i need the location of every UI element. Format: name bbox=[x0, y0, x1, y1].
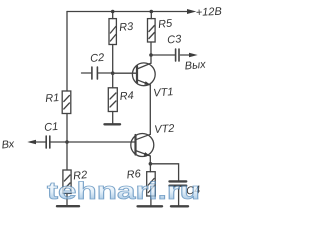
resistor R1 bbox=[62, 91, 71, 114]
svg-text:Вых: Вых bbox=[184, 59, 206, 73]
wire: VT1 base wire bbox=[113, 72, 137, 74]
svg-text:R4: R4 bbox=[119, 90, 134, 103]
junction: rail/R5 bbox=[150, 10, 154, 14]
transistor VT2 bbox=[131, 134, 154, 157]
wire: left rail from +12V to R1 bbox=[66, 12, 68, 92]
wire: node to C4 bbox=[150, 164, 178, 180]
svg-text:R1: R1 bbox=[45, 92, 60, 105]
wire: VT1 emitter to VT2 collector bbox=[149, 85, 151, 134]
wire: R3 bottom to VT1 base node bbox=[112, 45, 114, 74]
wire: +12V supply rail bbox=[67, 11, 188, 13]
wire: VT2 base wire bbox=[67, 141, 135, 143]
ground under C4 bbox=[171, 205, 188, 207]
resistor R5 bbox=[148, 12, 156, 43]
wire: VT2 emitter to R6/C4 node bbox=[149, 156, 151, 164]
wire: C4 to ground bbox=[178, 187, 180, 205]
resistor R3 bbox=[109, 12, 116, 45]
ground under R6 bbox=[138, 205, 162, 207]
capacitor C4 bbox=[170, 181, 187, 185]
resistor R6 bbox=[147, 164, 156, 196]
svg-text:C3: C3 bbox=[167, 33, 183, 46]
capacitor C3 bbox=[151, 49, 190, 61]
wire: R4 to ground bbox=[112, 112, 114, 124]
capacitor C2 bbox=[82, 67, 113, 79]
svg-text:Вх: Вх bbox=[1, 138, 15, 151]
transistor VT1 bbox=[132, 63, 155, 86]
capacitor C1 bbox=[30, 136, 67, 148]
svg-text:tehnari.ru: tehnari.ru bbox=[47, 178, 200, 205]
ground under R4 bbox=[105, 123, 121, 125]
wire: R1 bottom to input node bbox=[66, 114, 68, 171]
svg-text:R3: R3 bbox=[119, 21, 135, 34]
resistor R4 bbox=[108, 73, 117, 111]
junction: R3/R4/C2/VT1-base node bbox=[111, 71, 115, 75]
svg-text:+12В: +12В bbox=[196, 6, 223, 19]
wire: R2 to ground bbox=[66, 193, 68, 205]
svg-text:C2: C2 bbox=[90, 52, 105, 65]
output arrowhead Вых bbox=[189, 53, 198, 57]
resistor R2 bbox=[63, 170, 71, 193]
input arrowhead Вх bbox=[27, 140, 36, 144]
junction: R1/R2/C1/VT2-base node bbox=[65, 140, 69, 144]
svg-text:VT1: VT1 bbox=[153, 86, 174, 99]
wire: R6 to ground bbox=[150, 196, 152, 205]
junction: rail/R3 bbox=[111, 10, 115, 14]
junction: collector/C3 node bbox=[149, 53, 153, 57]
svg-text:C1: C1 bbox=[44, 121, 59, 134]
+12V rail arrowhead bbox=[187, 9, 196, 14]
ground under R2 bbox=[57, 205, 79, 207]
junction: emitter/R6/C4 node bbox=[149, 162, 153, 166]
svg-text:VT2: VT2 bbox=[154, 123, 175, 136]
svg-text:R5: R5 bbox=[158, 17, 174, 30]
wire: R5 bottom to VT1 collector bbox=[150, 42, 152, 63]
